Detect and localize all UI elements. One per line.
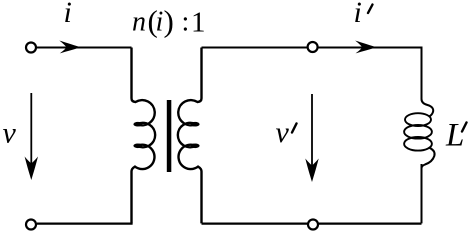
svg-text::: : <box>182 7 190 38</box>
label v' <box>276 116 297 149</box>
label n(i):1 <box>132 4 206 39</box>
inductor L' bottom hook <box>422 148 435 169</box>
wire top-right horizontal with corner down <box>202 48 422 100</box>
secondary winding cusp knot 2 <box>191 144 200 149</box>
inductor L' right lead <box>421 164 423 223</box>
inductor L' top hook <box>422 99 434 117</box>
node circle top-middle <box>308 42 318 52</box>
terminal circle top-left <box>26 43 36 53</box>
svg-text:n: n <box>132 7 146 38</box>
transformer core bar <box>167 100 172 172</box>
svg-text:): ) <box>164 4 174 39</box>
inductor L' loop 3 <box>404 137 432 151</box>
node circle bottom-middle <box>308 220 318 230</box>
transformer primary winding <box>132 48 156 224</box>
inductor L' loop 2 <box>404 125 432 139</box>
svg-text:i: i <box>354 0 362 29</box>
wire top-left horizontal <box>37 47 132 49</box>
wire bottom-left horizontal (primary side) <box>37 222 133 224</box>
svg-text:1: 1 <box>191 7 206 39</box>
svg-text:i: i <box>64 0 72 29</box>
arrow v (left voltage) <box>25 93 38 180</box>
label i' <box>354 0 373 29</box>
svg-text:L: L <box>445 118 464 154</box>
primary winding cusp knot 1 <box>133 122 142 127</box>
inductor L' loop 1 <box>405 113 431 126</box>
current arrow i on top-left wire <box>59 41 81 54</box>
secondary winding cusp knot 1 <box>191 122 200 127</box>
label L' <box>445 118 467 154</box>
primary winding cusp knot 2 <box>133 144 142 149</box>
wire bottom-right horizontal (secondary side) <box>202 222 422 224</box>
transformer secondary winding <box>178 48 202 224</box>
current arrow i' on top-right wire <box>355 41 377 54</box>
arrow v' (secondary voltage) <box>305 94 318 182</box>
terminal circle bottom-left <box>26 220 36 230</box>
svg-text:i: i <box>156 7 164 38</box>
svg-text:v: v <box>276 116 290 149</box>
svg-text:v: v <box>3 117 17 150</box>
